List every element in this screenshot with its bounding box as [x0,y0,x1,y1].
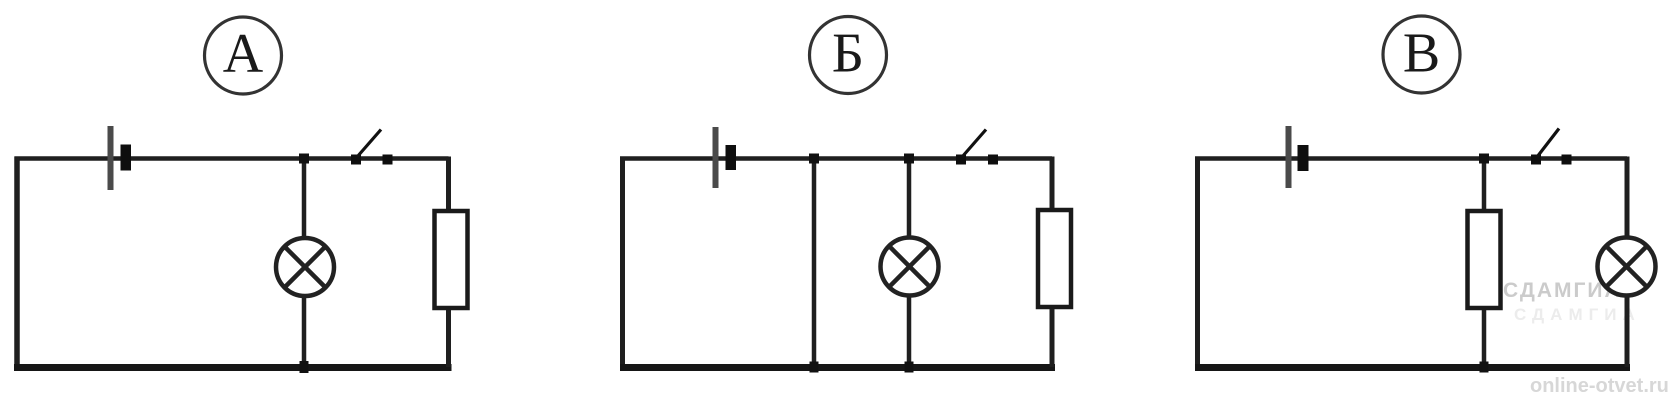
switch SA2: blade [962,130,986,158]
wire: B top [620,156,1052,161]
wire: B bottom [620,364,1055,371]
resistor R2 [1038,210,1071,307]
svg-text:В: В [1403,23,1440,85]
battery GB2: long plate [713,127,719,188]
node: B shunt top junction [809,154,819,164]
label circle A [205,17,282,94]
switch SA3: right contact dot [1562,155,1572,165]
battery GB3: short thick plate [1298,145,1309,171]
wire: A left [14,157,20,371]
switch SA1: left contact dot [351,155,361,165]
svg-text:А: А [223,23,264,85]
svg-text:СДАМГИА: СДАМГИА [1514,305,1641,324]
switch SA1: right contact dot [383,155,393,165]
wire: V right [1625,157,1630,368]
node: B shunt bottom junction [810,362,819,373]
resistor R1 [435,211,468,308]
node: B lamp top junction [904,154,914,164]
battery GB1: short thick plate [121,145,132,171]
wire: A right [446,157,451,368]
label circle B [810,17,887,94]
node: V branch top junction [1479,154,1489,164]
battery GB3: long plate [1286,126,1292,188]
svg-text:Б: Б [832,23,864,85]
wire: V bottom [1195,364,1630,371]
wire: B left [620,157,625,371]
wire: V top [1195,156,1627,161]
lamp HL2 [881,238,939,296]
battery GB2: short thick plate [726,145,737,170]
switch SA2: right contact dot [988,155,998,165]
lamp HL1 [276,238,334,296]
wire: A top [15,156,449,161]
wire: V left [1195,157,1200,371]
wire: B lamp branch [907,159,912,368]
wire: B right [1050,157,1055,368]
battery GB1: long plate [108,126,114,190]
wire: V resistor branch [1482,159,1487,368]
switch SA2: left contact dot [956,155,966,165]
wire: B shunt branch [812,159,817,368]
node: A bottom junction [300,361,309,373]
switch SA3: left contact dot [1531,155,1541,165]
svg-text:online-otvet.ru: online-otvet.ru [1530,375,1669,397]
node: V branch bottom junction [1480,362,1489,373]
wire: A lamp branch [302,159,307,368]
switch SA3: blade [1537,129,1559,158]
label circle V [1383,16,1460,93]
switch SA1: blade [357,130,381,158]
node: B lamp bottom junction [905,362,914,373]
node: A top junction [299,154,309,164]
wire: A bottom [14,364,452,371]
resistor R3 [1468,211,1501,308]
lamp HL3 [1598,238,1656,296]
